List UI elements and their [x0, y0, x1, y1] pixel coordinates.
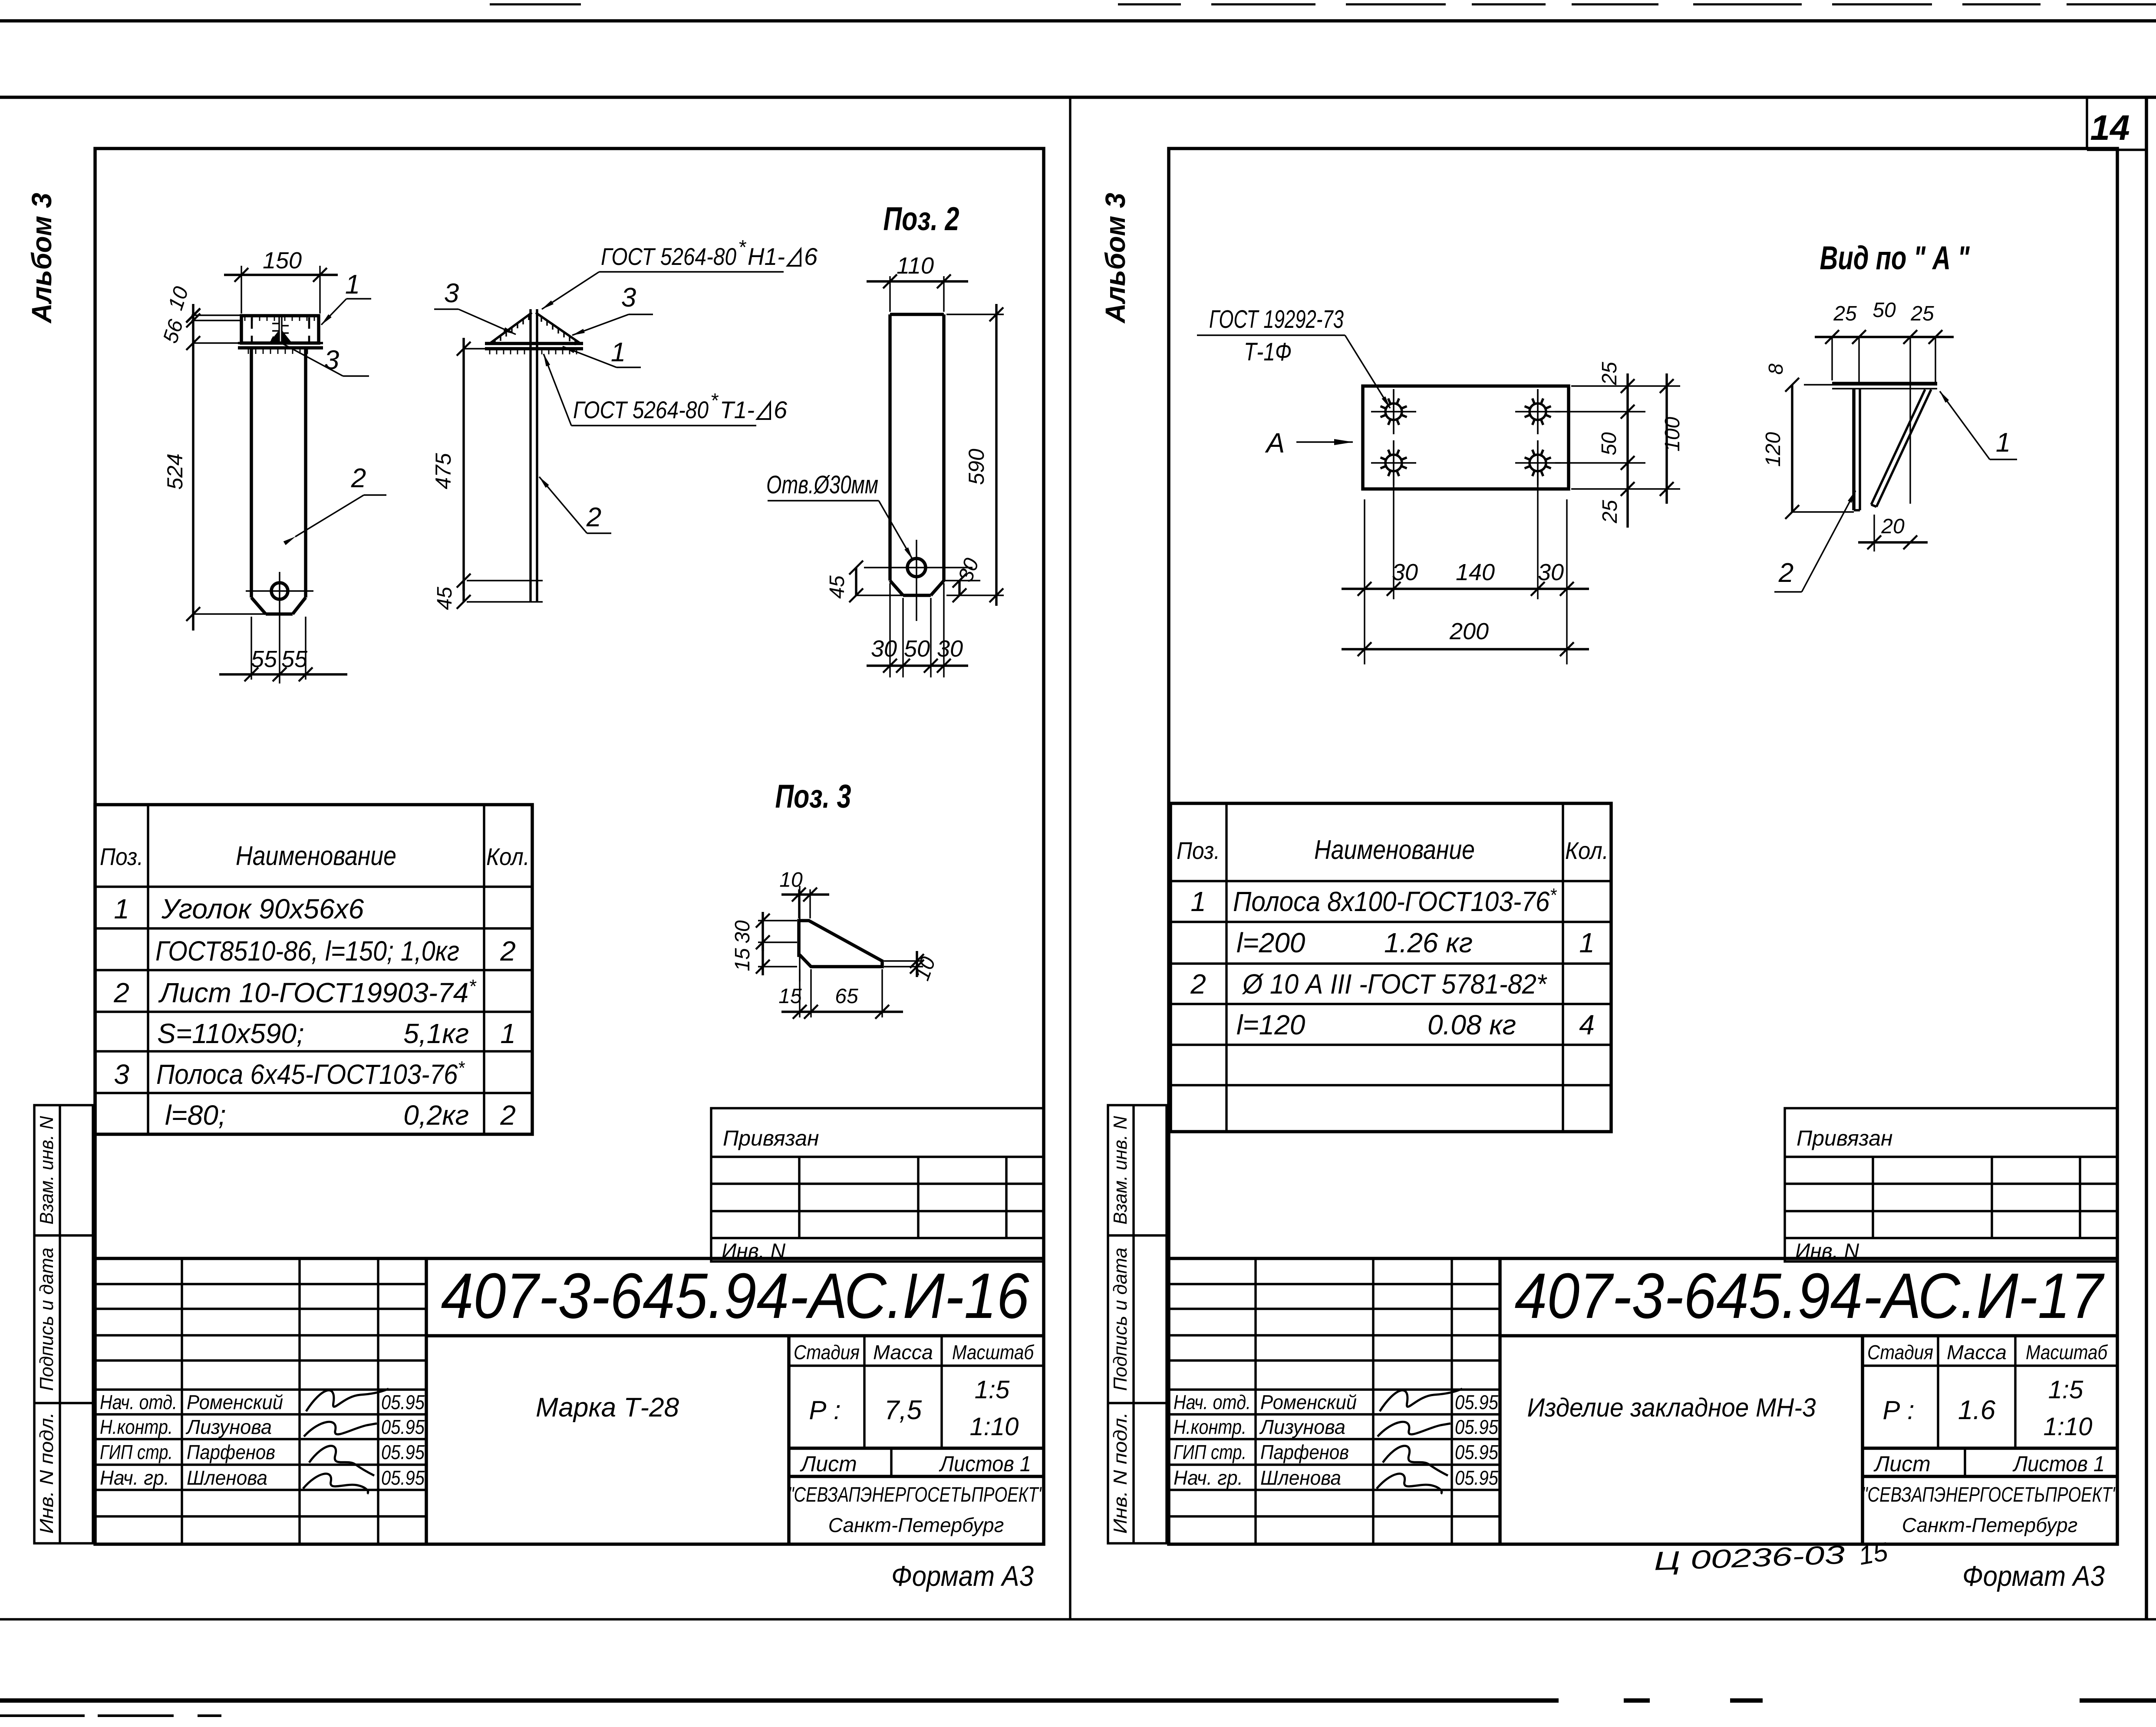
view1 hole	[271, 583, 288, 599]
view1 bolt dashed lines	[251, 317, 253, 342]
svg-text:Подпись и дата: Подпись и дата	[36, 1248, 57, 1391]
view1 label 3	[283, 344, 343, 376]
svg-text:Кол.: Кол.	[486, 843, 530, 870]
svg-text:Поз. 2: Поз. 2	[883, 201, 959, 238]
svg-text:524: 524	[163, 453, 187, 489]
view1 label 2	[295, 495, 364, 537]
page right border	[2145, 97, 2148, 1619]
svg-text:6: 6	[774, 396, 788, 423]
view2 label 2	[539, 477, 587, 533]
svg-text:"СЕВЗАПЭНЕРГОСЕТЬПРОЕКТ": "СЕВЗАПЭНЕРГОСЕТЬПРОЕКТ"	[1862, 1483, 2119, 1506]
svg-text:45: 45	[433, 587, 456, 610]
svg-text:Ø 10 А III -ГОСТ 5781-82*: Ø 10 А III -ГОСТ 5781-82*	[1242, 968, 1547, 1000]
svg-text:Т-1Ф: Т-1Ф	[1244, 338, 1292, 366]
svg-text:2: 2	[1190, 968, 1206, 1000]
doc number box	[1500, 1334, 2117, 1337]
svg-text:407-3-645.94-АС.И-16: 407-3-645.94-АС.И-16	[441, 1260, 1030, 1332]
svg-text:Р :: Р :	[1882, 1396, 1914, 1425]
svg-text:1: 1	[500, 1018, 516, 1049]
svg-text:1:10: 1:10	[2044, 1413, 2093, 1441]
svg-text:3: 3	[324, 345, 339, 375]
svg-text:1:10: 1:10	[970, 1413, 1019, 1441]
svg-text:Нач. гр.: Нач. гр.	[1174, 1466, 1243, 1489]
view1 left flange ext lines	[191, 314, 241, 316]
svg-text:Масштаб: Масштаб	[952, 1341, 1035, 1364]
svg-text:0,2кг: 0,2кг	[403, 1100, 469, 1131]
svg-text:Привязан: Привязан	[1797, 1126, 1893, 1150]
svg-text:20: 20	[1881, 515, 1905, 538]
svg-text:Нач. гр.: Нач. гр.	[100, 1466, 169, 1489]
svg-text:Масса: Масса	[873, 1341, 933, 1364]
vidA label 1	[1990, 459, 2017, 460]
svg-text:Подпись и дата: Подпись и дата	[1110, 1248, 1131, 1391]
svg-text:Т1-: Т1-	[720, 396, 755, 423]
poz2 dim 110	[889, 276, 890, 312]
title cells	[787, 1336, 791, 1544]
svg-text:Наименование: Наименование	[236, 841, 396, 871]
svg-text:Нач. отд.: Нач. отд.	[1174, 1391, 1251, 1413]
poz2 hole	[907, 558, 926, 577]
poz2 dim 45	[855, 568, 857, 595]
svg-text:Масса: Масса	[1947, 1341, 2007, 1364]
left strip boxes	[1108, 1105, 1167, 1543]
page divider	[1069, 97, 1071, 1619]
mn3 dim 200	[1342, 648, 1589, 650]
svg-text:Шленова: Шленова	[1260, 1466, 1341, 1489]
svg-text:Инв. N подл.: Инв. N подл.	[36, 1412, 57, 1534]
svg-text:25: 25	[1598, 362, 1621, 386]
svg-text:l=80;: l=80;	[165, 1100, 226, 1131]
doc number box	[426, 1334, 1044, 1337]
top border line 1	[0, 19, 2156, 23]
svg-text:15: 15	[731, 948, 754, 971]
svg-text:110: 110	[897, 253, 934, 279]
svg-text:Формат А3: Формат А3	[891, 1560, 1034, 1592]
vidA dim 20	[1873, 515, 1875, 551]
poz3 dim 10 right	[884, 960, 923, 961]
svg-text:25: 25	[1910, 302, 1934, 325]
svg-text:150: 150	[263, 248, 302, 274]
svg-text:Лист: Лист	[1873, 1452, 1931, 1476]
svg-text:Санкт-Петербург: Санкт-Петербург	[828, 1514, 1004, 1536]
svg-text:Альбом 3: Альбом 3	[1100, 193, 1131, 324]
svg-text:Роменский: Роменский	[1260, 1391, 1357, 1413]
view1 angle block	[241, 316, 319, 343]
poz2 dims 30 50 30	[889, 583, 890, 677]
svg-text:55: 55	[251, 646, 277, 672]
view2 plate vertical	[529, 309, 531, 602]
svg-text:Роменский: Роменский	[187, 1391, 283, 1413]
svg-text:30: 30	[871, 636, 897, 662]
svg-text:475: 475	[431, 453, 455, 489]
svg-text:Р :: Р :	[809, 1396, 841, 1425]
svg-text:30: 30	[1538, 559, 1564, 585]
svg-text:ГИП стр.: ГИП стр.	[100, 1441, 173, 1463]
view2 gost H1 label	[599, 271, 784, 272]
parts table	[1170, 803, 1611, 1132]
view1 weld hatch bottom	[248, 349, 249, 354]
svg-text:Листов 1: Листов 1	[2012, 1452, 2105, 1476]
sheet frame	[95, 149, 1044, 1544]
view1: dim 150	[241, 266, 242, 314]
svg-text:Поз.: Поз.	[1177, 837, 1220, 864]
view2 gusset left	[490, 313, 532, 343]
view1 center joint	[278, 316, 280, 343]
svg-text:l=200: l=200	[1236, 927, 1305, 958]
view1 weld fillets	[269, 330, 279, 343]
bottom scan dashes	[0, 1714, 221, 1717]
svg-text:Лист: Лист	[800, 1452, 857, 1476]
svg-text:Н.контр.: Н.контр.	[100, 1416, 173, 1438]
svg-text:1: 1	[1190, 886, 1206, 917]
vidA top plate	[1804, 384, 1937, 385]
svg-text:Альбом 3: Альбом 3	[26, 193, 57, 324]
svg-text:05.95: 05.95	[1455, 1391, 1498, 1413]
svg-text:25: 25	[1599, 500, 1622, 524]
mn3 dim 30 140 30	[1342, 588, 1589, 590]
svg-text:Поз.: Поз.	[100, 843, 143, 870]
sheet number box	[2086, 97, 2088, 150]
svg-text:1.6: 1.6	[1958, 1395, 1996, 1425]
view1 joint side ticks	[272, 323, 279, 324]
svg-text:50: 50	[1872, 299, 1896, 322]
view1 dims 10,56	[186, 308, 200, 322]
view2 label 1	[563, 347, 616, 367]
svg-text:1: 1	[1579, 927, 1595, 958]
svg-text:140: 140	[1456, 559, 1495, 585]
svg-text:2: 2	[1778, 558, 1793, 588]
vidA vertical bar	[1852, 389, 1856, 510]
svg-text:10: 10	[779, 868, 803, 892]
poz2 dim 590	[946, 314, 1004, 315]
svg-text:Полоса 8х100-ГОСТ103-76*: Полоса 8х100-ГОСТ103-76*	[1233, 885, 1557, 917]
privyazan box	[1785, 1108, 2117, 1261]
svg-text:65: 65	[835, 985, 858, 1008]
title cells	[1861, 1336, 1864, 1544]
svg-text:590: 590	[964, 449, 989, 485]
svg-text:Н.контр.: Н.контр.	[1174, 1416, 1246, 1438]
poz3 dim 10 top	[798, 889, 799, 918]
svg-text:1: 1	[611, 337, 626, 367]
svg-text:1: 1	[345, 270, 360, 300]
svg-text:05.95: 05.95	[1455, 1416, 1498, 1438]
svg-text:Уголок 90х56х6: Уголок 90х56х6	[161, 893, 364, 925]
svg-text:*: *	[738, 236, 747, 258]
svg-text:Изделие закладное МН-3: Изделие закладное МН-3	[1527, 1393, 1816, 1422]
svg-text:15: 15	[778, 985, 802, 1008]
sheet frame	[1169, 149, 2117, 1544]
poz3 shape	[799, 921, 882, 967]
vidA diagonal bar	[1876, 390, 1931, 507]
svg-text:Стадия: Стадия	[794, 1341, 860, 1364]
view2 bottom hatch	[489, 350, 491, 354]
svg-text:55: 55	[281, 646, 308, 672]
view1 dims 55 55	[251, 617, 252, 680]
svg-text:05.95: 05.95	[381, 1466, 425, 1489]
svg-text:4: 4	[1579, 1009, 1595, 1040]
svg-text:Санкт-Петербург: Санкт-Петербург	[1902, 1514, 2078, 1536]
svg-text:Полоса 6х45-ГОСТ103-76*: Полоса 6х45-ГОСТ103-76*	[156, 1057, 465, 1090]
svg-text:*: *	[710, 389, 719, 412]
svg-text:100: 100	[1661, 417, 1684, 452]
svg-text:Формат А3: Формат А3	[1962, 1560, 2105, 1592]
left strip boxes	[34, 1105, 93, 1543]
vidA label 2	[1774, 591, 1802, 592]
poz3 dim 30 left	[758, 920, 797, 921]
svg-text:ГОСТ8510-86, l=150; 1,0кг: ГОСТ8510-86, l=150; 1,0кг	[155, 935, 459, 967]
svg-text:Парфенов: Парфенов	[187, 1441, 275, 1463]
svg-text:1:5: 1:5	[975, 1376, 1010, 1404]
title block	[1169, 1257, 2117, 1260]
svg-text:50: 50	[904, 636, 930, 662]
svg-text:3: 3	[114, 1059, 129, 1090]
view2 dim 45	[457, 595, 471, 609]
view2 gusset right	[536, 313, 580, 343]
svg-text:2: 2	[351, 463, 366, 493]
svg-text:30: 30	[731, 920, 754, 944]
svg-text:Привязан: Привязан	[723, 1126, 819, 1150]
poz2 hole label	[768, 500, 879, 501]
svg-text:30: 30	[937, 636, 963, 662]
svg-text:Инв. N подл.: Инв. N подл.	[1110, 1412, 1131, 1534]
svg-text:3: 3	[621, 283, 636, 313]
svg-text:05.95: 05.95	[1455, 1441, 1498, 1463]
mn3 bolts	[1371, 389, 1416, 434]
svg-text:2: 2	[586, 502, 601, 532]
poz3 dim 15 65 bottom	[799, 969, 800, 1017]
vidA dim 120	[1791, 385, 1793, 512]
svg-text:05.95: 05.95	[1455, 1466, 1498, 1489]
svg-text:6: 6	[804, 243, 818, 270]
svg-text:1: 1	[1996, 428, 2011, 458]
top border line 2	[0, 96, 2156, 99]
svg-text:Листов 1: Листов 1	[939, 1452, 1031, 1476]
svg-text:ГОСТ 5264-80: ГОСТ 5264-80	[601, 243, 736, 270]
svg-text:05.95: 05.95	[381, 1441, 425, 1463]
svg-text:200: 200	[1449, 618, 1489, 644]
view2 top angle	[485, 342, 583, 345]
svg-text:Взам. инв. N: Взам. инв. N	[1110, 1116, 1131, 1225]
svg-text:1:5: 1:5	[2048, 1376, 2083, 1404]
svg-text:5,1кг: 5,1кг	[403, 1018, 469, 1049]
svg-text:05.95: 05.95	[381, 1391, 425, 1413]
svg-text:1.26 кг: 1.26 кг	[1384, 927, 1473, 958]
svg-text:Лист 10-ГОСТ19903-74*: Лист 10-ГОСТ19903-74*	[158, 976, 477, 1008]
svg-text:1: 1	[114, 893, 129, 925]
svg-text:Шленова: Шленова	[187, 1466, 267, 1489]
view2 dim 475	[462, 338, 465, 591]
svg-text:7,5: 7,5	[884, 1395, 922, 1425]
svg-text:15: 15	[1856, 1537, 1890, 1571]
svg-text:30: 30	[1392, 559, 1418, 585]
svg-text:05.95: 05.95	[381, 1416, 425, 1438]
svg-text:Поз. 3: Поз. 3	[775, 778, 851, 815]
bottom border line	[0, 1618, 2156, 1620]
svg-text:"СЕВЗАПЭНЕРГОСЕТЬПРОЕКТ": "СЕВЗАПЭНЕРГОСЕТЬПРОЕКТ"	[788, 1483, 1045, 1506]
poz2 dim 30 right	[958, 581, 960, 595]
signatures	[303, 1389, 389, 1494]
title block	[95, 1257, 1044, 1260]
svg-text:14: 14	[2090, 108, 2130, 148]
poz3 dim 15 left	[758, 966, 797, 967]
svg-text:l=120: l=120	[1236, 1009, 1305, 1040]
svg-text:45: 45	[826, 575, 849, 599]
view2 label 3 right	[572, 314, 629, 335]
svg-text:S=110х590;: S=110х590;	[157, 1018, 304, 1049]
svg-text:ГИП стр.: ГИП стр.	[1174, 1441, 1246, 1463]
svg-text:Нач. отд.: Нач. отд.	[100, 1391, 177, 1413]
svg-text:25: 25	[1833, 302, 1857, 325]
svg-text:407-3-645.94-АС.И-17: 407-3-645.94-АС.И-17	[1515, 1260, 2105, 1332]
mn3 plate	[1363, 386, 1569, 489]
signatures	[1377, 1389, 1462, 1494]
poz2 plate	[890, 313, 944, 316]
svg-text:Вид по " А ": Вид по " А "	[1820, 240, 1970, 277]
svg-text:Масштаб: Масштаб	[2026, 1341, 2108, 1364]
mn3 bottom ext lines	[1364, 499, 1365, 664]
svg-text:Марка Т-28: Марка Т-28	[536, 1393, 679, 1423]
view1 weld hatch top	[244, 316, 246, 321]
svg-text:Взам. инв. N: Взам. инв. N	[36, 1116, 57, 1225]
svg-text:2: 2	[113, 977, 129, 1008]
view1 label 1	[321, 299, 346, 325]
view2 gusset hatch	[494, 340, 495, 345]
svg-text:2: 2	[500, 1100, 516, 1131]
mn3 right dims 25 50 25 100	[1571, 385, 1680, 386]
svg-text:2: 2	[500, 935, 516, 967]
svg-text:Отв.Ø30мм: Отв.Ø30мм	[766, 471, 878, 499]
view1 dim 524	[192, 304, 194, 631]
svg-text:8: 8	[1764, 363, 1787, 375]
top scan dash line	[490, 3, 2156, 6]
view2 label 3 left	[458, 309, 516, 334]
privyazan box	[711, 1108, 1044, 1261]
svg-text:50: 50	[1598, 432, 1621, 456]
svg-text:Парфенов: Парфенов	[1260, 1441, 1349, 1463]
bottom thick line	[0, 1698, 2156, 1703]
svg-text:120: 120	[1762, 432, 1785, 467]
svg-text:ГОСТ 5264-80: ГОСТ 5264-80	[573, 396, 709, 423]
svg-text:Н1-: Н1-	[748, 243, 785, 270]
svg-text:3: 3	[444, 278, 459, 308]
parts table	[95, 805, 532, 1134]
svg-text:Наименование: Наименование	[1314, 835, 1475, 865]
svg-text:Кол.: Кол.	[1565, 837, 1609, 864]
view2 gost T1 label	[571, 425, 756, 426]
view1 plate	[250, 348, 253, 598]
vidA dim 8	[1785, 378, 1799, 392]
svg-text:0.08 кг: 0.08 кг	[1427, 1009, 1516, 1040]
svg-text:А: А	[1265, 427, 1285, 459]
svg-text:Лизунова: Лизунова	[185, 1416, 272, 1438]
svg-text:ГОСТ 19292-73: ГОСТ 19292-73	[1209, 305, 1344, 334]
mn3 gost label	[1197, 334, 1345, 336]
svg-text:Лизунова: Лизунова	[1259, 1416, 1345, 1438]
svg-text:Стадия: Стадия	[1867, 1341, 1933, 1364]
